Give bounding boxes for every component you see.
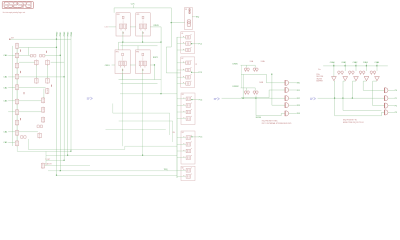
svg-text:for interrupt priority logic o: for interrupt priority logic out <box>3 11 26 14</box>
wire <box>130 64 135 66</box>
transistor Q14 <box>15 84 18 90</box>
junction <box>160 42 161 43</box>
pass transistor G3.3 <box>183 116 191 120</box>
pad cell group G1 <box>181 32 195 54</box>
off-page connector IRQIN <box>214 97 220 101</box>
wire <box>355 63 357 71</box>
svg-text:RINT1: RINT1 <box>153 57 158 59</box>
latch transistor <box>373 71 376 75</box>
wire <box>112 104 114 114</box>
wire <box>169 113 171 135</box>
pass transistor G4.3 <box>183 155 191 159</box>
wire staircase 3 <box>48 170 177 172</box>
wire <box>109 26 116 28</box>
wire <box>106 129 166 131</box>
net bus line B2 <box>63 36 65 160</box>
net bus line B0 <box>56 36 58 175</box>
transistor pair Q21 <box>39 54 45 57</box>
wire staircase 1 <box>28 139 177 149</box>
svg-text:CA1: CA1 <box>3 76 8 79</box>
svg-text:CLK: CLK <box>131 4 135 6</box>
wire <box>137 46 139 50</box>
transistor Q17 <box>15 120 18 126</box>
stub wire <box>177 175 186 177</box>
fan wire <box>334 81 385 116</box>
wire <box>241 97 269 99</box>
svg-text:BUFFER: BUFFER <box>316 81 323 83</box>
svg-text:FF3: FF3 <box>136 51 139 53</box>
inverter <box>364 77 369 81</box>
wire <box>323 65 388 67</box>
latch transistor Q44 <box>244 91 247 95</box>
svg-text:G1: G1 <box>181 33 183 35</box>
wire <box>172 121 174 142</box>
wire <box>11 46 13 146</box>
svg-text:PLA: PLA <box>316 73 320 76</box>
latch transistor Q45 <box>247 91 250 95</box>
pass transistor G5.0 <box>183 168 191 172</box>
transistor Q28 <box>41 107 44 113</box>
transistor Q11 <box>15 52 18 58</box>
svg-text:MUXE: MUXE <box>256 117 262 119</box>
inverter <box>375 77 380 81</box>
svg-text:IRQ EN: IRQ EN <box>316 78 322 80</box>
transistor Q16 <box>15 109 18 115</box>
wire long riser <box>122 42 124 146</box>
clock wire <box>114 8 181 73</box>
wire <box>245 88 247 91</box>
svg-text:P0: P0 <box>395 90 397 92</box>
svg-text:G3: G3 <box>182 94 184 96</box>
stub wire <box>177 137 186 139</box>
transistor Q19 <box>15 140 18 146</box>
latch transistor Q41 <box>247 68 250 72</box>
output wire <box>289 82 297 84</box>
wire <box>142 69 144 80</box>
svg-text:Dx: Dx <box>318 69 320 71</box>
svg-text:IR2: IR2 <box>297 98 300 100</box>
wire <box>112 64 115 66</box>
wire <box>45 164 90 166</box>
column rail <box>176 37 178 178</box>
junction <box>67 155 68 156</box>
wire <box>245 65 247 68</box>
wire <box>119 79 162 81</box>
transistor Q22 <box>35 59 38 65</box>
svg-text:CA5: CA5 <box>3 141 8 144</box>
latch transistor <box>341 71 344 75</box>
buffer U6 <box>384 88 388 93</box>
wire <box>255 96 257 116</box>
svg-text:D0IA: D0IA <box>261 60 266 63</box>
transistor Q26 <box>46 88 49 94</box>
wire <box>29 55 31 57</box>
wire <box>241 87 256 89</box>
register cell FF1 <box>136 13 150 36</box>
gate contact <box>45 51 47 53</box>
wire <box>17 146 71 151</box>
wire to buffer <box>272 74 285 105</box>
buffer U3 <box>285 96 289 101</box>
stub wire <box>177 169 186 171</box>
junction <box>154 64 155 65</box>
pass transistor G1.0 <box>183 35 191 39</box>
wire <box>43 89 45 98</box>
stub wire <box>177 104 186 106</box>
output wire <box>289 112 297 114</box>
wire to column <box>150 27 161 42</box>
pass transistor G1.1 <box>183 41 191 45</box>
junction <box>64 76 65 77</box>
svg-text:PRI4: PRI4 <box>71 31 73 36</box>
output wire <box>192 136 199 138</box>
junction <box>191 99 192 100</box>
junction <box>60 170 61 171</box>
svg-text:C I/O: C I/O <box>105 27 110 29</box>
wire <box>344 63 346 71</box>
wire <box>120 93 177 95</box>
latch transistor <box>348 71 351 75</box>
output wire <box>388 111 395 113</box>
wire <box>8 111 41 113</box>
wire to buffer <box>269 90 285 98</box>
gate contact <box>23 92 25 94</box>
wire <box>254 65 256 68</box>
wire <box>333 63 335 76</box>
svg-text:TLATCH: TLATCH <box>45 163 52 166</box>
wire <box>376 63 378 71</box>
junction <box>56 39 57 40</box>
svg-text:IR1: IR1 <box>297 90 300 92</box>
svg-text:DECODE: DECODE <box>316 76 323 78</box>
junction <box>70 151 71 152</box>
gate contact <box>19 50 21 52</box>
fan wire <box>353 81 385 98</box>
wire staircase 4 <box>57 174 177 176</box>
pad cell group G3 <box>181 93 195 125</box>
pass transistor G2.1 <box>183 68 191 72</box>
junction <box>342 98 343 99</box>
output wire <box>388 105 395 107</box>
wire <box>241 73 266 75</box>
pad cell group P0 <box>185 7 193 29</box>
output wire <box>289 97 297 99</box>
buffer U7 <box>384 96 388 101</box>
latch transistor <box>352 71 355 75</box>
wire <box>19 46 57 48</box>
svg-text:G4: G4 <box>182 132 184 134</box>
output wire <box>388 97 395 99</box>
buffer U8 <box>384 103 388 108</box>
junction <box>243 98 244 99</box>
svg-text:CA4: CA4 <box>3 131 8 134</box>
wire <box>119 120 173 122</box>
svg-text:FF0: FF0 <box>117 14 120 16</box>
pass transistor G3.2 <box>183 110 191 114</box>
title text 6525R3 <box>4 2 31 7</box>
svg-text:PRI3: PRI3 <box>68 31 70 36</box>
svg-text:C0A3: C0A3 <box>363 61 368 64</box>
svg-text:CB1/5: CB1/5 <box>105 65 110 67</box>
wire to buffer <box>256 113 285 115</box>
junction <box>366 65 367 66</box>
svg-text:P2: P2 <box>395 105 397 107</box>
svg-text:EFFECTIVE IRQ R3 TO I/O: EFFECTIVE IRQ R3 TO I/O <box>343 122 365 124</box>
stub wire <box>177 118 186 120</box>
stub wire <box>177 76 186 78</box>
off-page connector IRQ <box>87 97 93 101</box>
fan wire <box>343 81 382 110</box>
svg-text:P1: P1 <box>395 98 397 100</box>
wire <box>366 63 368 71</box>
wire end dot <box>9 39 10 40</box>
stub wire <box>177 62 186 64</box>
svg-text:CA2: CA2 <box>3 86 8 89</box>
wire to buffer <box>266 74 285 83</box>
wire <box>46 159 64 161</box>
junction <box>191 136 192 137</box>
junction <box>271 74 272 75</box>
pass transistor G4.1 <box>183 142 191 146</box>
pad cell group G2 <box>181 57 195 88</box>
transistor Q25 <box>46 78 49 84</box>
transistor Q15 <box>15 99 18 105</box>
stub wire <box>177 157 186 159</box>
wire <box>8 54 30 56</box>
wire <box>113 112 170 114</box>
svg-text:IR3: IR3 <box>297 105 300 107</box>
junction <box>56 47 57 48</box>
svg-text:DRIN2: DRIN2 <box>233 86 240 88</box>
wire <box>45 54 61 56</box>
junction <box>171 22 172 23</box>
svg-text:C2: C2 <box>195 64 197 66</box>
wire <box>254 88 256 91</box>
fan wire <box>363 81 384 90</box>
svg-text:IRQ: IRQ <box>196 17 200 19</box>
pass transistor P0.0 <box>187 20 191 27</box>
stub wire <box>177 150 186 152</box>
stub wire <box>177 143 186 145</box>
pass transistor G1.2 <box>183 48 191 52</box>
junction <box>160 93 161 94</box>
svg-text:IR4: IR4 <box>297 113 300 115</box>
pad cell group G4 <box>181 131 195 164</box>
net bus line B3 <box>67 36 69 155</box>
junction <box>355 65 356 66</box>
junction <box>122 42 123 43</box>
latch transistor Q46 <box>253 91 256 95</box>
transistor pair Q30 <box>37 125 43 128</box>
latch transistor Q40 <box>244 68 247 72</box>
junction <box>56 175 57 176</box>
output wire <box>388 89 395 91</box>
transistor pair Q32 <box>21 136 27 139</box>
transistor Q10 <box>15 43 18 49</box>
pass transistor G2.3 <box>183 81 191 85</box>
transistor Q31 <box>38 132 41 138</box>
wire <box>36 65 38 78</box>
latch transistor <box>338 71 341 75</box>
wire <box>222 97 285 99</box>
output wire <box>192 99 199 101</box>
transistor Q33 <box>41 163 44 169</box>
transistor Q18 <box>15 130 18 136</box>
svg-text:FF2: FF2 <box>116 51 119 53</box>
svg-text:EN: EN <box>173 132 175 134</box>
wire <box>8 141 15 143</box>
wire staircase 2 <box>46 154 177 156</box>
svg-text:CA3: CA3 <box>3 100 8 103</box>
title box <box>2 2 33 9</box>
svg-text:R3 TO INTERNAL STROBE MUX 6525: R3 TO INTERNAL STROBE MUX 6525 <box>262 122 292 125</box>
wire <box>122 31 124 42</box>
inverter <box>354 77 359 81</box>
buffer U2 <box>285 87 289 92</box>
wire <box>142 31 144 42</box>
gate rail wire <box>16 48 18 141</box>
stub wire <box>177 36 186 38</box>
junction <box>142 42 143 43</box>
wire <box>8 131 38 133</box>
junction <box>255 98 256 99</box>
svg-text:DRIN: DRIN <box>233 63 238 65</box>
inverter <box>332 77 337 81</box>
latch transistor <box>370 71 373 75</box>
stub wire <box>177 111 186 113</box>
latch transistor Q43 <box>256 68 259 72</box>
svg-text:C0A2: C0A2 <box>353 61 358 64</box>
stub wire <box>177 83 186 85</box>
transistor Q24 <box>35 78 38 84</box>
svg-text:PC5: PC5 <box>199 137 203 139</box>
stub wire <box>177 49 186 51</box>
resistor marks <box>189 9 190 14</box>
output wire <box>289 104 297 106</box>
wire to lower net <box>150 65 154 80</box>
transistor pair Q20 <box>30 54 36 57</box>
register cell FF2 <box>115 50 130 74</box>
register cell FF3 <box>136 50 151 74</box>
pass transistor G4.0 <box>183 135 191 139</box>
svg-text:FF1: FF1 <box>137 14 140 16</box>
svg-text:PC2: PC2 <box>199 44 203 46</box>
buffer U9 <box>384 110 388 115</box>
wire <box>121 82 158 84</box>
wire <box>240 65 242 88</box>
wire <box>242 74 244 98</box>
output wire <box>192 16 196 18</box>
svg-text:RINT0: RINT0 <box>154 25 159 27</box>
buffer U5 <box>285 111 289 116</box>
junction <box>334 98 335 99</box>
wire <box>160 42 162 94</box>
wire <box>19 61 35 63</box>
pass transistor G2.0 <box>183 60 191 64</box>
junction <box>142 155 143 156</box>
svg-text:PRI2: PRI2 <box>64 31 66 36</box>
latch transistor Q47 <box>256 91 259 95</box>
transistor Q12 <box>15 63 18 69</box>
wire <box>8 76 64 78</box>
stub wire <box>177 69 186 71</box>
output wire <box>289 89 297 91</box>
wire <box>121 45 158 47</box>
wire <box>241 64 256 66</box>
svg-text:D0IB: D0IB <box>259 82 264 84</box>
stub wire <box>177 98 186 100</box>
transistor Q23 <box>46 59 49 65</box>
net wire row0 <box>10 38 71 40</box>
junction <box>60 55 61 56</box>
wire <box>122 69 124 80</box>
buffer U4 <box>285 103 289 108</box>
output wire <box>192 43 199 45</box>
net bus line B1 <box>59 36 61 171</box>
wire riser <box>142 80 144 156</box>
net bus line B4 <box>70 36 72 151</box>
svg-text:G5: G5 <box>182 167 184 169</box>
svg-text:TIRQ: TIRQ <box>164 169 169 171</box>
buffer U1 <box>285 80 289 85</box>
latch transistor <box>359 71 362 75</box>
register cell FF0 <box>116 13 130 36</box>
fan wire <box>373 81 385 106</box>
svg-text:PC3: PC3 <box>199 72 203 74</box>
latch transistor <box>362 71 365 75</box>
gate contact <box>19 71 21 73</box>
wire <box>8 100 41 102</box>
pass transistor G3.0 <box>183 96 191 100</box>
wire <box>27 47 29 55</box>
wire <box>47 65 49 78</box>
svg-text:PRI0: PRI0 <box>56 31 58 36</box>
svg-text:INT: INT <box>11 37 14 39</box>
transistor Q29 <box>41 117 44 123</box>
junction <box>345 65 346 66</box>
svg-text:PRI1: PRI1 <box>60 31 62 36</box>
junction <box>64 160 65 161</box>
junction <box>352 98 353 99</box>
stub wire <box>177 43 186 45</box>
pad cell group G5 <box>181 166 195 180</box>
svg-text:P0: P0 <box>185 9 187 11</box>
wire <box>130 26 136 28</box>
output wire <box>192 71 199 73</box>
gate contact <box>19 118 21 120</box>
svg-text:P3: P3 <box>395 112 397 114</box>
pass transistor G4.2 <box>183 149 191 153</box>
junction <box>191 72 192 73</box>
transistor Q27 <box>41 97 44 103</box>
wire <box>45 151 47 165</box>
svg-text:CA0: CA0 <box>3 54 8 57</box>
inverter <box>343 77 348 81</box>
wire <box>8 87 45 89</box>
wire <box>51 61 65 63</box>
transistor Q13 <box>15 74 18 80</box>
svg-text:G2: G2 <box>181 58 183 60</box>
off-page connector PRIN <box>310 97 316 101</box>
wire to pad cell <box>171 22 184 24</box>
wire <box>318 97 353 99</box>
svg-text:IR0: IR0 <box>297 83 300 85</box>
pass transistor G2.2 <box>183 75 191 79</box>
junction <box>191 43 192 44</box>
pass transistor G3.1 <box>183 103 191 107</box>
wire <box>119 41 162 43</box>
wire <box>132 5 134 8</box>
